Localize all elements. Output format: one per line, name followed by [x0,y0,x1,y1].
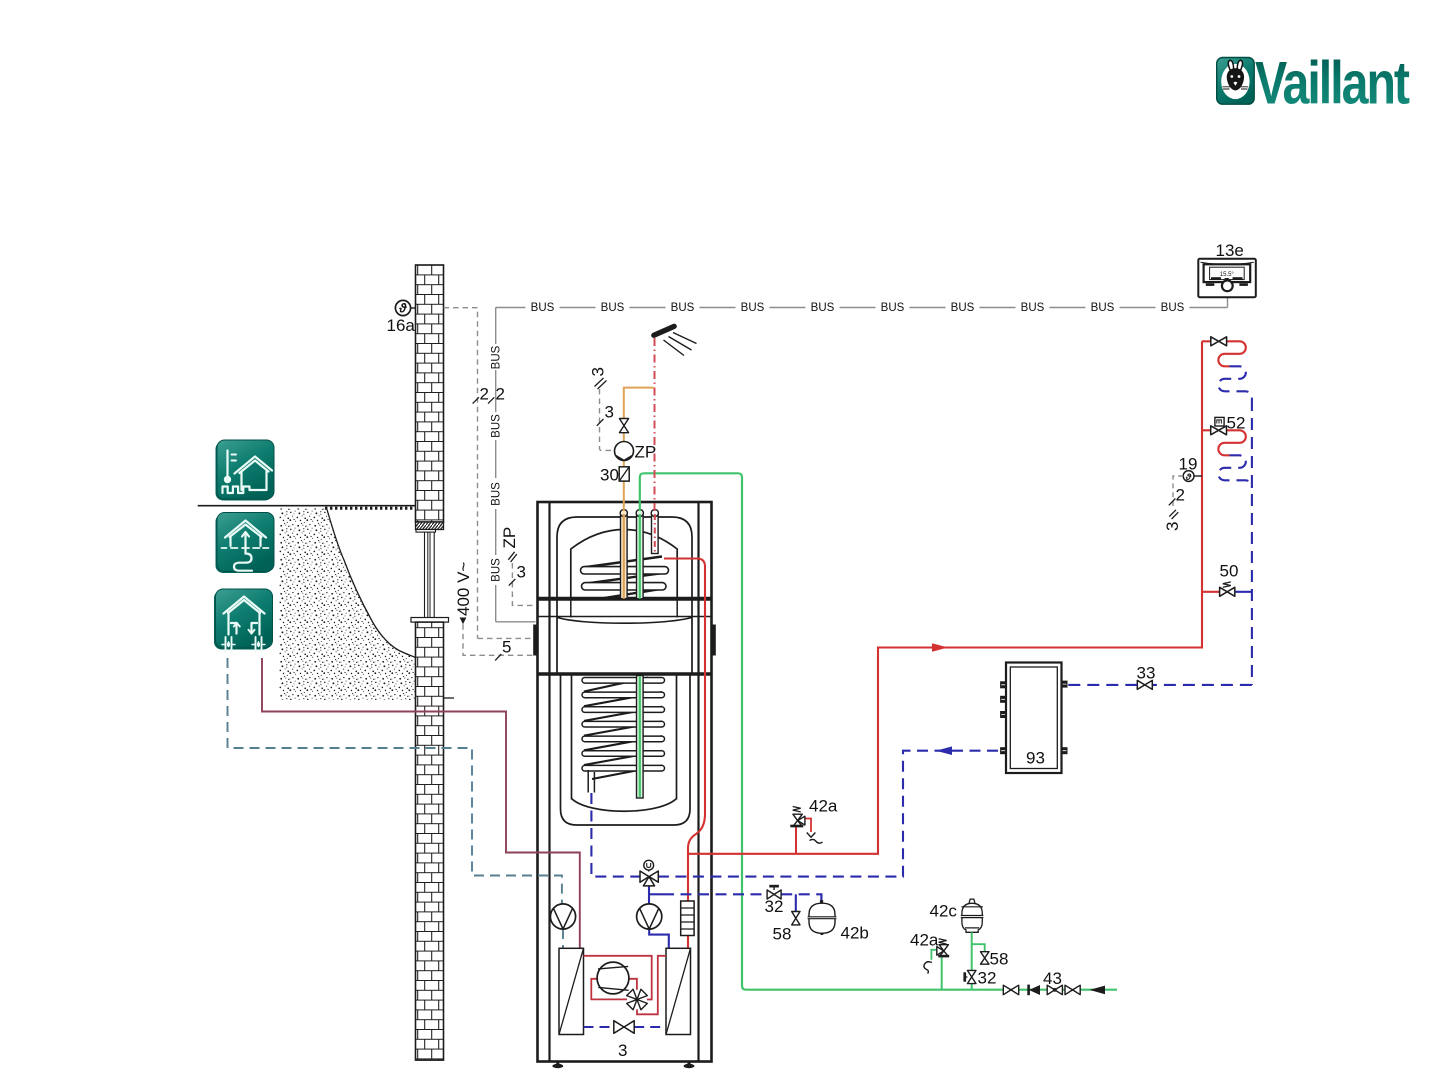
pump heating right [637,904,662,929]
pipe valve to pump [649,886,663,904]
sensor 16a [387,300,416,335]
wire ZP cable to unit [500,527,536,606]
valve 50 overflow [1202,562,1252,597]
svg-text:33: 33 [1137,664,1156,683]
svg-text:42c: 42c [930,902,958,921]
wire refrigerant discharge [629,979,637,990]
svg-text:BUS: BUS [811,302,835,314]
safety valve 42a heating [790,797,838,854]
svg-text:ϑ: ϑ [398,302,407,316]
flow arrow blue [936,746,952,755]
pipe heating return main [658,751,1001,877]
svg-text:3: 3 [605,403,614,422]
valve 52 motor mixer [1211,414,1246,435]
svg-text:BUS: BUS [601,302,625,314]
svg-text:BUS: BUS [741,302,765,314]
svg-text:BUS: BUS [491,414,503,438]
serpentine circuit 2 blue part [1218,455,1252,488]
svg-text:BUS: BUS [491,482,503,506]
sensor 19 [1163,455,1202,532]
valve 4-way [627,989,648,1010]
svg-text:BUS: BUS [1091,302,1115,314]
unit side connector stubs [533,625,716,656]
pipe source pump to evaporator [562,929,564,948]
ground line [198,506,454,698]
check valve 30 [600,466,629,485]
valve 32 cap brine [963,969,996,988]
flow arrow brine [1090,986,1106,995]
svg-text:BUS: BUS [671,302,695,314]
svg-text:2: 2 [480,385,489,404]
valve shut-off circulation [619,419,628,433]
svg-text:BUS: BUS [1021,302,1045,314]
expansion vessel 42b [808,896,869,943]
svg-text:13e: 13e [1216,241,1244,260]
module 93 [1000,663,1067,774]
pipe circulation orange [624,388,654,511]
buffer tank lower section [561,674,691,825]
svg-text:2: 2 [1176,486,1185,505]
svg-text:52: 52 [1227,414,1246,433]
svg-text:42a: 42a [809,797,838,816]
svg-text:400 V~: 400 V~ [454,562,473,616]
svg-text:50: 50 [1220,562,1239,581]
pipe source maroon [262,658,580,948]
shut-off valve brine 2 [1065,985,1080,995]
check valve brine [1027,985,1040,996]
filter [681,901,694,936]
shower [654,326,697,355]
valve 33 [1068,664,1156,690]
safety valve 42a brine [910,931,949,990]
svg-text:16a: 16a [387,316,416,335]
wire BUS vertical [496,308,536,622]
icon heating-circuit [216,440,275,501]
dip tube brine [636,509,643,598]
svg-text:2: 2 [496,385,505,404]
pipe supply from tank coil [664,559,705,902]
Vaillant logo emblem [1217,58,1255,105]
expansion valve [584,1021,667,1034]
svg-text:58: 58 [773,925,792,944]
valve 32 cap heating [765,885,784,916]
svg-text:32: 32 [978,969,997,988]
brine tube lower [637,676,644,799]
svg-text:ZP: ZP [500,527,519,549]
pipe hot water dash-dot [654,338,656,511]
svg-text:19: 19 [1179,455,1198,474]
svg-text:15.5°: 15.5° [1220,272,1235,278]
flow arrow red [932,643,948,652]
coil outlet pipe [588,770,594,793]
svg-text:Vaillant: Vaillant [1255,50,1410,117]
pipe source supply teal [228,658,562,904]
wire 400V supply [454,562,536,656]
svg-text:BUS: BUS [491,345,503,369]
wire refrigerant suction [591,979,627,1000]
pipe return to module [1152,684,1252,686]
icon water-source [214,589,273,652]
serpentine circuit 2 red part [1202,430,1246,455]
svg-text:93: 93 [1026,749,1045,768]
svg-text:43: 43 [1043,969,1062,988]
valve 58 drain heating [773,912,801,944]
serpentine circuit 1 red part [1202,341,1246,366]
wire refrigerant valve to condenser [637,956,666,1015]
wire 16a cable [444,308,536,639]
heating coil lower [582,678,665,780]
svg-text:5: 5 [502,638,511,657]
svg-text:42b: 42b [841,924,869,943]
heat exchanger evaporator [559,948,584,1034]
controller 13e [1198,241,1256,297]
svg-text:3: 3 [618,1041,627,1060]
pipe filter to condenser [687,936,689,949]
soil section [279,509,416,701]
dip tube hot water [651,509,658,553]
svg-text:BUS: BUS [951,302,975,314]
wall lower [416,622,444,1060]
branch and valve 58 brine [972,944,1009,968]
svg-text:42a: 42a [910,931,939,950]
pipe pump to condenser [649,929,669,948]
serpentine circuit 1 blue part [1218,366,1252,399]
label 5 wire [495,638,511,661]
svg-text:ZP: ZP [635,443,657,462]
expansion vessel 42c [930,899,984,990]
icon ground-source [216,513,275,574]
valve 3-way motor [640,860,658,886]
svg-text:3: 3 [517,563,526,582]
window [411,530,449,623]
wire BUS horizontal [496,297,1228,307]
dip tube cold water [620,509,627,598]
svg-text:BUS: BUS [531,302,555,314]
pipe brine line [640,473,1117,989]
pump heating left [550,904,575,929]
svg-text:3: 3 [1163,522,1182,531]
fill valve 43 [1043,969,1062,995]
Vaillant wordmark [1255,50,1410,117]
wire refrigerant evaporator to valve [584,956,652,1000]
label 2 wires [473,385,505,404]
pipe heating supply main [688,341,1202,854]
svg-text:32: 32 [765,897,784,916]
svg-text:BUS: BUS [881,302,905,314]
pipe expansion branch [663,894,821,911]
DHW tank upper section [557,517,692,599]
svg-text:30: 30 [600,466,619,485]
heat pump unit cabinet [538,502,712,1062]
compressor [597,962,629,994]
valve shut-off circuit1 [1211,337,1227,346]
DHW coil upper [581,557,669,599]
heat exchanger condenser [666,948,691,1034]
unit feet [552,1062,694,1069]
wire ZP pump cable [589,367,615,450]
svg-text:3: 3 [589,367,608,376]
pipe return vertical blue [1251,399,1253,685]
shut-off valve brine 1 [1003,985,1018,995]
svg-text:BUS: BUS [491,558,503,582]
pipe return from buffer coil [591,793,640,877]
pump ZP [615,442,657,462]
svg-text:58: 58 [990,950,1009,969]
wall upper [416,265,444,530]
svg-text:BUS: BUS [1161,302,1185,314]
